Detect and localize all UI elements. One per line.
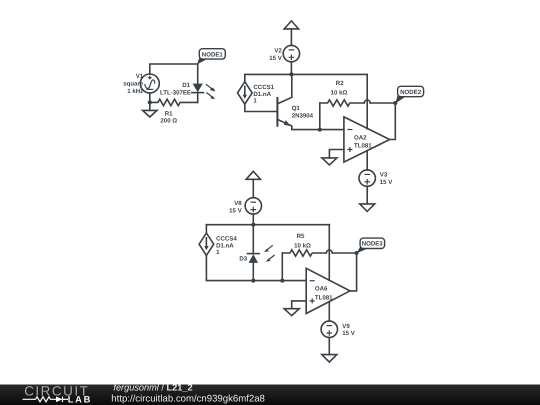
svg-text:V3: V3 [380, 171, 388, 178]
svg-text:Q1: Q1 [292, 105, 301, 112]
svg-text:http://circuitlab.com/cn939gk6: http://circuitlab.com/cn939gk6mf2a8 [111, 394, 265, 405]
svg-text:LAB: LAB [68, 395, 92, 405]
svg-text:OA2: OA2 [354, 134, 367, 141]
svg-text:15 V: 15 V [269, 55, 282, 62]
svg-text:15 V: 15 V [229, 208, 242, 215]
svg-text:OA6: OA6 [315, 286, 328, 293]
svg-text:TL081: TL081 [354, 142, 372, 149]
svg-text:D3: D3 [239, 256, 247, 263]
svg-text:V2: V2 [274, 47, 282, 54]
svg-text:LTL-307EE: LTL-307EE [160, 90, 191, 97]
svg-text:1 kHz: 1 kHz [127, 88, 143, 95]
svg-text:V1: V1 [136, 73, 144, 80]
svg-text:R1: R1 [165, 110, 173, 117]
svg-text:2N3904: 2N3904 [292, 113, 314, 120]
svg-text:15 V: 15 V [380, 179, 393, 186]
svg-text:10 kΩ: 10 kΩ [331, 89, 348, 96]
svg-text:NODE1: NODE1 [202, 51, 224, 58]
svg-text:R2: R2 [336, 80, 344, 87]
svg-text:15 V: 15 V [342, 330, 355, 337]
svg-text:R5: R5 [297, 233, 305, 240]
svg-text:fergusonml / L21_2: fergusonml / L21_2 [113, 383, 192, 393]
svg-text:V8: V8 [234, 200, 242, 207]
svg-text:200 Ω: 200 Ω [160, 118, 177, 125]
svg-text:V9: V9 [342, 323, 350, 330]
svg-text:D1: D1 [182, 82, 190, 89]
svg-text:NODE3: NODE3 [362, 241, 384, 248]
svg-text:10 kΩ: 10 kΩ [294, 242, 311, 249]
svg-text:NODE2: NODE2 [400, 89, 422, 96]
svg-text:TL081: TL081 [315, 295, 333, 302]
svg-text:square: square [123, 81, 144, 88]
